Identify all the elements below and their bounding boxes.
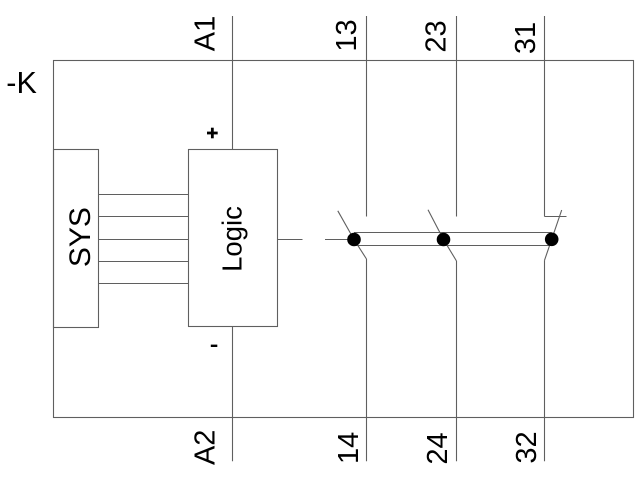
- actuator link dash 1: [278, 239, 303, 241]
- wire SYS-Logic 5: [99, 283, 189, 285]
- SYS block: [54, 150, 99, 328]
- svg-text:Logic: Logic: [216, 206, 247, 272]
- wire contact3 to 32: [545, 239, 552, 260]
- contact blade 13-14: [338, 211, 354, 240]
- contact blade 31-32: [552, 210, 562, 239]
- svg-text:31: 31: [510, 22, 542, 54]
- svg-text:-K: -K: [6, 66, 37, 100]
- actuator link dash 2: [325, 239, 348, 241]
- wire SYS-Logic 2: [99, 216, 189, 218]
- wire SYS-Logic 1: [99, 194, 189, 196]
- svg-text:13: 13: [331, 19, 363, 51]
- junction dot contact2: [437, 233, 451, 247]
- svg-text:24: 24: [422, 432, 454, 464]
- svg-text:A1: A1: [189, 16, 221, 51]
- svg-text:32: 32: [511, 431, 543, 463]
- junction dot contact3: [545, 233, 559, 247]
- wire jog terminal 31: [545, 216, 567, 218]
- wire SYS-Logic 3: [99, 239, 189, 241]
- wire terminal 32: [544, 260, 546, 461]
- contact blade 23-24: [428, 210, 444, 240]
- polarity plus sign: [207, 128, 218, 139]
- wire terminal A1: [232, 16, 234, 150]
- wire terminal 24: [456, 261, 458, 461]
- wire terminal 13: [366, 16, 368, 217]
- wire terminal A2: [232, 327, 234, 462]
- wire terminal 14: [366, 259, 368, 461]
- wire contact1 to 14: [354, 240, 367, 260]
- wire terminal 23: [456, 16, 458, 217]
- junction dot contact1: [347, 233, 361, 247]
- wire contact2 to 24: [444, 240, 457, 262]
- bus wire upper: [354, 232, 552, 234]
- svg-text:23: 23: [420, 20, 452, 52]
- svg-text:A2: A2: [190, 430, 222, 465]
- wire terminal 31: [544, 16, 546, 217]
- polarity minus sign: [211, 345, 218, 347]
- bus wire lower: [354, 245, 552, 247]
- svg-text:14: 14: [333, 432, 365, 464]
- wire SYS-Logic 4: [99, 261, 189, 263]
- logic block U1: [189, 150, 278, 327]
- svg-text:SYS: SYS: [64, 207, 97, 267]
- device outline box: [54, 61, 634, 418]
